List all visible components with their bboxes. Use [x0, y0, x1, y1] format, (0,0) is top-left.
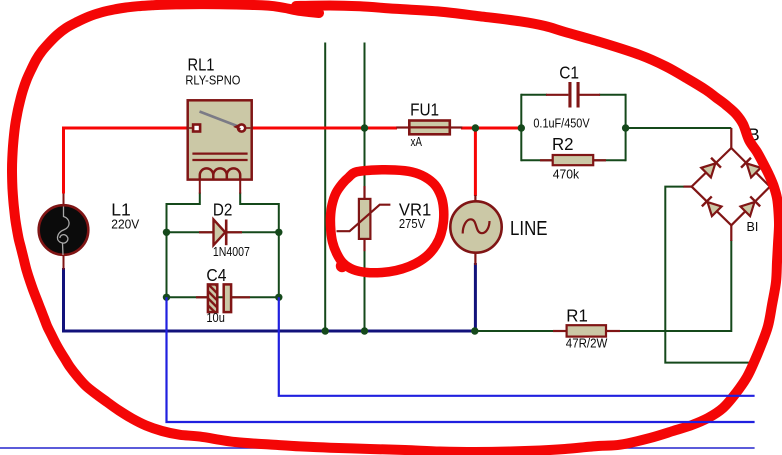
wire: green C4 row horizontal [167, 296, 279, 298]
wire: red from relay contact to fuse FU1 [252, 127, 398, 130]
bridge BR1 diode top-right [741, 158, 761, 178]
svg-text:0.1uF/450V: 0.1uF/450V [533, 117, 590, 131]
junction dot at fuse/LINE node [472, 124, 479, 131]
bridge BR1 left pin [684, 186, 692, 188]
wire: blue stub from C4 right node down [279, 297, 755, 396]
wire: green D2 row horizontal [167, 231, 279, 233]
junction dot at C1/R2 left node [518, 124, 525, 131]
wire: navy from lamp L1 bottom down to bottom rail [62, 268, 65, 331]
bridge BR1 diode bottom-right [740, 196, 760, 216]
annotation: small red marker circle around VR1 [330, 170, 443, 273]
wire: green C1/R2 loop bottom edge [521, 159, 625, 161]
wire: blue stub from C4 left node down [167, 297, 755, 422]
svg-text:C1: C1 [559, 62, 579, 82]
wire: green vertical net V2 (through VR1) [364, 43, 366, 332]
svg-text:470k: 470k [553, 168, 580, 182]
wire: green from bridge left corner down and right (to bridge right corner, under marker) [665, 187, 753, 363]
svg-text:10u: 10u [206, 311, 225, 325]
svg-text:BI: BI [747, 220, 759, 234]
svg-text:RL1: RL1 [188, 55, 215, 75]
svg-text:LINE: LINE [510, 218, 548, 240]
wire: red mains from lamp L1 top to relay contact, corner at (63.5,128) [64, 128, 189, 194]
capacitor C4 [196, 284, 250, 312]
svg-text:R1: R1 [566, 305, 588, 325]
svg-text:FU1: FU1 [410, 100, 439, 120]
wire: green from C1/R2 right node to bridge top corner [626, 127, 732, 129]
svg-text:47R/2W: 47R/2W [566, 337, 608, 351]
wire: green C1/R2 loop top edge right segment [599, 94, 626, 96]
junction dot at C1/R2 right node [622, 124, 629, 131]
resistor R1 [553, 325, 620, 336]
varistor VR1 [337, 186, 391, 251]
AC source LINE [450, 195, 501, 265]
bridge BR1 right pin [770, 186, 778, 188]
svg-text:RLY-SPNO: RLY-SPNO [185, 74, 240, 88]
bridge BR1 top pin [730, 128, 732, 148]
relay RL1 coil pin 2 [239, 180, 241, 194]
svg-text:220V: 220V [111, 218, 140, 232]
wire: green from rail junction to R1 and up to bridge bottom corner [475, 240, 732, 331]
junction dot at D2 row left [163, 229, 170, 236]
relay RL1 [188, 100, 252, 193]
wire: green relay coil left pin loop to D2/C4 [167, 193, 200, 298]
wire: navy from LINE source bottom to rail junction [474, 263, 477, 331]
wire: green vertical net V1 [324, 43, 326, 332]
svg-text:275V: 275V [399, 217, 426, 231]
junction dot at V2/red mains [361, 124, 368, 131]
bridge BR1 bottom pin [730, 225, 732, 241]
wire: green C1/R2 loop left edge [520, 94, 522, 162]
junction dot at rail/V1 [322, 327, 329, 334]
junction dot at C4 row right [275, 294, 282, 301]
junction dot at rail/LINE/R1 [471, 327, 478, 334]
svg-text:D2: D2 [213, 200, 233, 220]
wire: red from fuse FU1 to C1/R2 node [461, 127, 521, 130]
bridge rectifier BR1 [684, 128, 779, 241]
wire: green C1/R2 loop top edge left segment [521, 94, 547, 96]
wire: green C1/R2 loop right edge [625, 94, 627, 162]
bridge BR1 diamond edges [692, 148, 770, 225]
wire: red drop from fuse node down to LINE source [474, 128, 477, 196]
resistor R2 [540, 155, 606, 165]
diode D2 [199, 220, 242, 246]
junction dot at C4 row left [163, 294, 170, 301]
svg-text:C4: C4 [206, 265, 226, 285]
wire: thin blue bottom rail (net 3) [0, 447, 755, 449]
capacitor C1 [546, 82, 600, 108]
annotation: small marker knot at bottom-left of VR1 circle [339, 263, 345, 269]
bridge BR1 diode bottom-left [702, 196, 722, 216]
wire: navy bottom rail to R1 node [62, 330, 475, 333]
wire: green relay coil right pin loop to D2/C4 [240, 193, 279, 298]
bridge BR1 diode top-left [701, 158, 721, 178]
lamp L1 [39, 194, 89, 270]
fuse FU1 [396, 121, 462, 135]
svg-text:1N4007: 1N4007 [213, 245, 250, 259]
junction dot at rail/V2 [361, 327, 368, 334]
svg-text:L1: L1 [111, 200, 131, 220]
svg-text:xA: xA [411, 135, 423, 149]
svg-text:R2: R2 [552, 134, 574, 154]
junction dot at D2 row right [275, 229, 282, 236]
relay RL1 coil pin 1 [199, 180, 201, 194]
